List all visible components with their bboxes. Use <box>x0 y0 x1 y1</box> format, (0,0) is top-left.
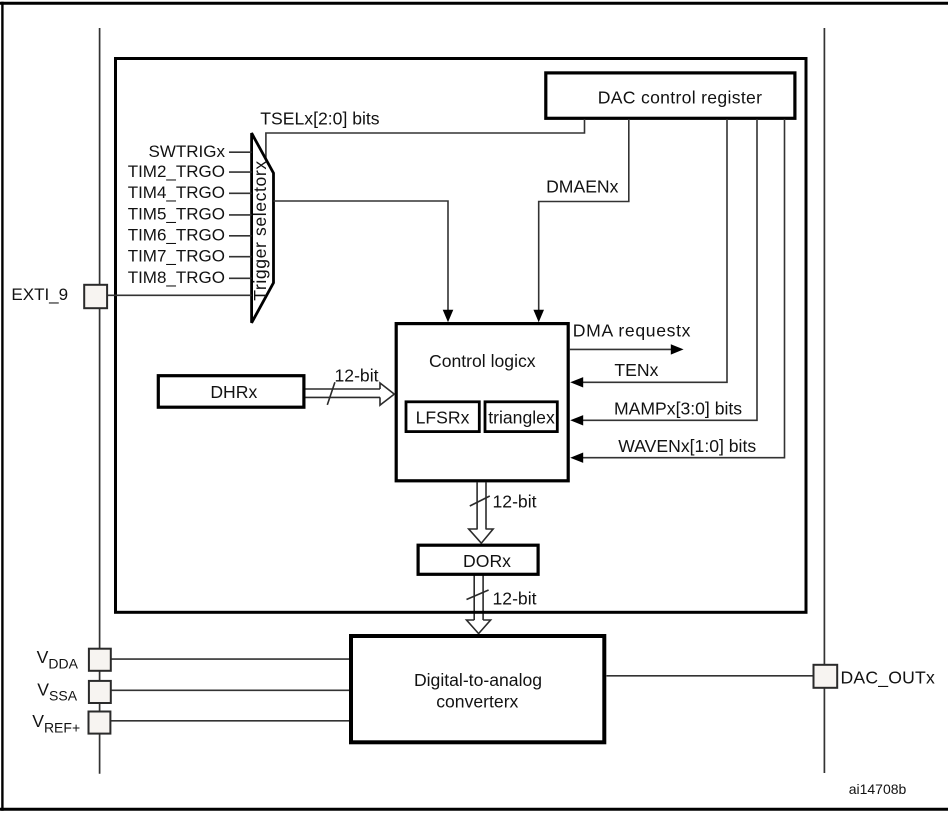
pin VREF+ <box>89 712 111 734</box>
bus arrow DHRx to control logic <box>306 382 395 405</box>
svg-text:WAVENx[1:0] bits: WAVENx[1:0] bits <box>618 436 756 456</box>
svg-text:DMA requestx: DMA requestx <box>573 320 691 340</box>
svg-text:12-bit: 12-bit <box>493 588 537 608</box>
wire TENx from control register into control logic <box>583 119 727 382</box>
arrowhead trigger output into control logic <box>443 310 454 322</box>
wire DMA requestx out of control logic <box>570 348 672 350</box>
svg-text:converterx: converterx <box>436 692 518 712</box>
arrowhead WAVENx <box>570 453 583 463</box>
svg-text:DAC_OUTx: DAC_OUTx <box>841 668 935 689</box>
arrowhead DMAENx into control logic <box>533 310 544 322</box>
figure frame bottom <box>0 808 948 811</box>
svg-text:DHRx: DHRx <box>210 382 257 402</box>
svg-text:Trigger selectorx: Trigger selectorx <box>250 160 270 301</box>
pin DAC_OUTx <box>814 665 838 688</box>
wire TIM6_TRGO stub <box>229 235 252 237</box>
wire VREF+ to converter <box>111 720 349 722</box>
pin EXTI_9 <box>84 285 107 308</box>
svg-text:trianglex: trianglex <box>488 408 555 428</box>
DHRx box <box>158 376 304 408</box>
svg-text:TENx: TENx <box>614 360 658 380</box>
wire VSSA to converter <box>111 689 349 691</box>
figure frame top <box>0 2 948 5</box>
bus arrow DORx to DAC (drawn under DAC block border) <box>467 575 491 634</box>
DORx box <box>418 545 538 574</box>
wire TSELx from control register to trigger selector <box>266 119 585 160</box>
control logic box <box>396 324 568 481</box>
digital-to-analog converter box <box>351 636 604 742</box>
svg-text:TSELx[2:0] bits: TSELx[2:0] bits <box>260 108 380 128</box>
svg-text:TIM8_TRGO: TIM8_TRGO <box>128 268 225 287</box>
svg-text:Control logicx: Control logicx <box>429 351 536 371</box>
svg-text:ai14708b: ai14708b <box>849 781 907 797</box>
chip boundary left vertical line <box>99 28 101 774</box>
wire converter to DAC_OUTx pin <box>607 675 814 677</box>
svg-text:TIM7_TRGO: TIM7_TRGO <box>128 247 225 266</box>
trigger selector mux <box>252 133 274 323</box>
wire TIM4_TRGO stub <box>229 192 252 194</box>
wire TIM7_TRGO stub <box>229 256 252 258</box>
svg-text:12-bit: 12-bit <box>493 492 537 512</box>
bus arrow control logic to DORx <box>469 482 493 543</box>
svg-text:LFSRx: LFSRx <box>416 408 470 428</box>
pin VSSA <box>89 681 111 703</box>
wire VDDA to converter <box>111 658 349 660</box>
DAC block rectangle <box>116 59 807 613</box>
wire MAMPx from control register into control logic <box>583 119 757 420</box>
svg-text:EXTI_9: EXTI_9 <box>11 285 68 304</box>
svg-text:TIM4_TRGO: TIM4_TRGO <box>128 183 225 202</box>
svg-text:MAMPx[3:0] bits: MAMPx[3:0] bits <box>614 399 742 419</box>
figure frame left <box>1 2 3 811</box>
LFSRx box <box>406 402 479 432</box>
svg-text:TIM2_TRGO: TIM2_TRGO <box>128 162 225 181</box>
DAC control register box U-reg <box>546 73 795 118</box>
trianglex box <box>485 402 557 432</box>
svg-text:TIM5_TRGO: TIM5_TRGO <box>128 205 225 224</box>
wire EXTI_9 to trigger selector <box>100 294 252 296</box>
wire DMAENx from control register to control logic <box>539 119 629 310</box>
svg-text:DMAENx: DMAENx <box>546 177 619 197</box>
svg-text:12-bit: 12-bit <box>335 365 379 385</box>
arrowhead MAMPx <box>570 415 583 425</box>
svg-text:Digital-to-analog: Digital-to-analog <box>414 670 542 690</box>
wire WAVENx from control register into control logic <box>583 119 785 458</box>
svg-text:TIM6_TRGO: TIM6_TRGO <box>128 226 225 245</box>
wire trigger selector output to control logic <box>274 201 449 310</box>
arrowhead TENx <box>570 377 583 387</box>
wire TIM2_TRGO stub <box>229 171 252 173</box>
arrowhead DMA requestx <box>671 344 684 354</box>
pin VDDA <box>89 649 111 671</box>
svg-text:DAC control register: DAC control register <box>598 87 763 107</box>
wire SWTRIGx stub <box>229 151 252 153</box>
wire TIM5_TRGO stub <box>229 214 252 216</box>
svg-text:DORx: DORx <box>463 551 511 571</box>
chip boundary right vertical line <box>823 28 825 773</box>
svg-text:SWTRIGx: SWTRIGx <box>149 142 226 161</box>
wire TIM8_TRGO stub <box>229 277 252 279</box>
